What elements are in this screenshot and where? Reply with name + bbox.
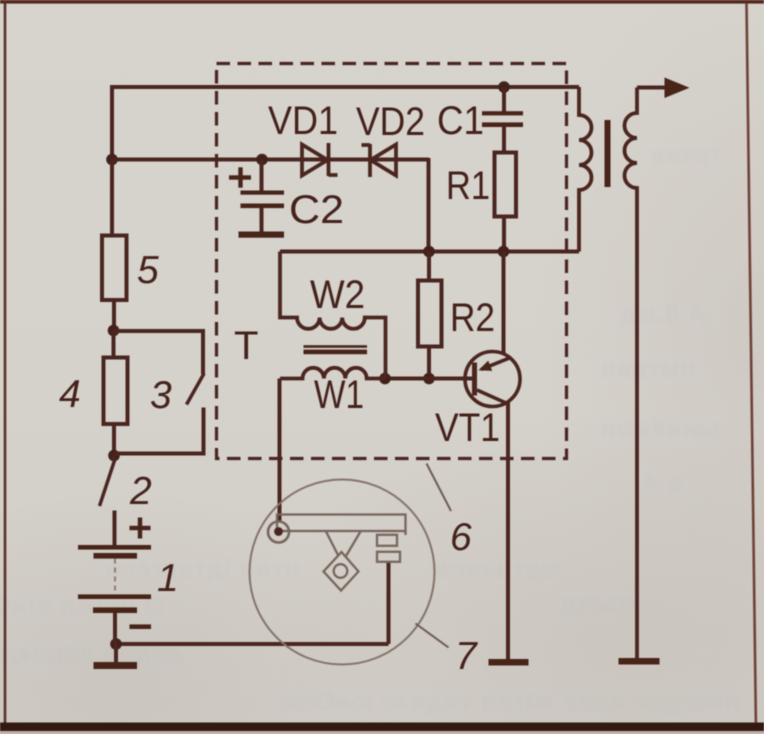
breaker cam diamond <box>324 552 359 591</box>
ground under secondary <box>619 658 660 665</box>
node: junction dot above resistor 4 <box>108 325 120 337</box>
node: junction dot base rail / R2 <box>423 373 435 385</box>
distributor housing circle 7 <box>250 480 435 665</box>
svg-text:6: 6 <box>450 516 472 559</box>
wire C1 top lead <box>502 87 506 112</box>
svg-text:1: 1 <box>157 557 179 600</box>
resistor 4 <box>104 358 128 425</box>
leader line to label 7 <box>416 624 449 648</box>
battery 1 plus sign <box>130 518 151 539</box>
node: junction dot mid rail / emitter <box>498 246 510 258</box>
breaker pivot <box>268 522 289 543</box>
transformer T core <box>304 345 368 354</box>
breaker follower V <box>326 532 361 557</box>
wire bottom rail battery to breaker <box>116 642 389 646</box>
node: junction dot C2 top <box>256 154 268 166</box>
ground under battery <box>94 662 138 669</box>
wire C2 top lead <box>260 160 264 192</box>
wire switch 3 lower branch <box>114 408 204 454</box>
leader line to label 6 <box>427 464 452 512</box>
svg-text:T: T <box>234 324 258 368</box>
switch 3 blade <box>187 374 205 405</box>
wire mid rail <box>280 250 579 254</box>
wire rail to resistor 5 <box>110 160 114 236</box>
ignition coil primary winding <box>579 87 592 252</box>
switch 2 blade <box>100 456 115 507</box>
svg-text:4: 4 <box>59 373 81 416</box>
node: junction dot left rail <box>106 154 118 166</box>
wire battery inter-cell link <box>114 559 116 595</box>
wire C2 bottom lead <box>260 208 264 232</box>
transformer T winding W2 <box>280 252 386 379</box>
svg-text:C1: C1 <box>437 99 484 143</box>
breaker lever <box>277 515 406 536</box>
wire switch 2 to battery <box>113 511 117 546</box>
breaker fixed contact upper <box>377 535 397 546</box>
node: junction dot mid rail / R2 <box>423 246 435 258</box>
svg-text:W1: W1 <box>314 373 364 417</box>
svg-text:VD1: VD1 <box>268 99 338 143</box>
capacitor C2 plus sign <box>229 167 251 187</box>
wire high-voltage output <box>637 86 666 90</box>
wire battery minus lead <box>113 613 117 644</box>
resistor R1 <box>495 153 517 217</box>
wire resistor 4 bottom <box>112 424 116 456</box>
wire switch 3 upper branch <box>114 331 204 374</box>
dashed box 6 (electronic unit outline) <box>217 64 567 459</box>
svg-text:2: 2 <box>129 470 152 513</box>
ground under C2 <box>239 232 285 238</box>
labels <box>234 99 500 450</box>
node: junction dot battery minus <box>110 638 122 650</box>
resistor R2 <box>418 281 442 347</box>
ground under VT1 collector <box>489 659 529 666</box>
wire second rail (diode row) <box>112 158 429 162</box>
wire base rail to VT1 <box>385 377 474 381</box>
wire W1 to breaker pivot <box>278 379 282 523</box>
faint print bleed-through from reverse page <box>650 142 721 168</box>
wire emitter rail drop <box>502 252 506 355</box>
wire breaker contact drop <box>387 562 391 645</box>
svg-text:VT1: VT1 <box>435 406 500 450</box>
svg-text:R2: R2 <box>450 296 495 340</box>
capacitor C2 <box>241 191 285 209</box>
svg-text:R1: R1 <box>446 164 490 208</box>
wire C1 to R1 <box>502 127 506 154</box>
transistor VT1 <box>465 352 520 407</box>
capacitor C1 <box>482 111 523 127</box>
transformer T winding W1 <box>280 368 385 379</box>
wire battery to ground <box>114 644 118 663</box>
svg-text:C2: C2 <box>289 188 344 232</box>
wire collector drop <box>506 402 510 660</box>
svg-text:7: 7 <box>455 635 478 678</box>
resistor 5 <box>102 236 127 301</box>
node: junction dot W1 / W2 tap <box>379 373 391 385</box>
ignition coil secondary winding <box>625 88 638 660</box>
svg-text:VD2: VD2 <box>356 100 425 144</box>
svg-text:3: 3 <box>150 374 172 417</box>
node: junction dot below resistor 4 <box>108 450 120 462</box>
wire top rail <box>112 87 579 160</box>
svg-text:W2: W2 <box>310 273 365 317</box>
breaker cam shaft circle <box>334 564 348 578</box>
svg-text:5: 5 <box>137 249 159 292</box>
wire to resistor 4 <box>112 331 116 358</box>
wire R1 bottom lead <box>502 217 506 252</box>
wire VD2 output drop <box>427 158 431 252</box>
breaker fixed contact lower <box>377 552 400 562</box>
arrow high-voltage output <box>665 78 690 99</box>
wire resistor 5 bottom <box>112 300 116 331</box>
diode VD2 <box>362 144 397 177</box>
battery 1 minus sign <box>130 624 152 629</box>
wire R2 top lead <box>427 252 431 281</box>
node: junction dot C1 top <box>498 81 510 93</box>
ignition coil core <box>605 120 611 187</box>
battery 1 cell plates <box>78 545 151 613</box>
wire R2 bottom lead <box>427 347 431 379</box>
diode VD1 <box>302 143 338 176</box>
